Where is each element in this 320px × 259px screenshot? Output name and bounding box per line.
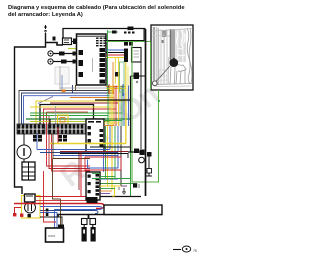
photo interior sketch <box>152 27 192 87</box>
leader line to A circle <box>156 66 170 82</box>
svg-text:Diagrama y esquema de cableado: Diagrama y esquema de cableado (Para ubi… <box>8 5 185 11</box>
red vertical x81 <box>80 152 82 197</box>
connector on top wire <box>128 27 134 31</box>
fork connector <box>88 215 90 220</box>
wire red thin y200 <box>36 200 98 202</box>
connector row <box>17 124 85 134</box>
knot extras <box>112 62 114 94</box>
wire gray stub to row <box>55 106 57 124</box>
wires CDI right stubs <box>104 120 122 122</box>
component box B1 <box>63 38 72 45</box>
key switch assembly <box>22 196 41 219</box>
red vertical through row gap <box>57 127 59 143</box>
svg-text:del arrancador: Leyenda A): del arrancador: Leyenda A) <box>8 12 83 18</box>
wire: left main black loop <box>15 33 46 194</box>
red wires bottom left <box>15 208 22 217</box>
red brown horiz at 151 <box>60 151 128 153</box>
under blob legs <box>170 67 171 84</box>
watermark <box>54 78 165 194</box>
round connector 2 <box>48 59 53 64</box>
top connector bar <box>106 29 144 41</box>
round connector 1 <box>48 51 53 56</box>
solenoid blob in photo <box>169 58 178 68</box>
lower vertical bundle <box>103 126 105 172</box>
horizontal bundle mid-low <box>50 143 126 145</box>
wire darkred y103 <box>50 102 118 104</box>
long black bus bottom <box>58 215 162 218</box>
connector marks small <box>46 209 49 212</box>
ECU pins left column <box>79 50 84 77</box>
ECU pins right column <box>96 38 106 84</box>
svg-text:00000: 00000 <box>48 234 56 238</box>
wire from connector2 <box>53 61 77 63</box>
junction orange on gray wire <box>62 90 66 93</box>
wire: antenna to small box <box>46 43 64 46</box>
pin end wire 1 <box>73 52 76 56</box>
bottom block <box>86 172 100 200</box>
svg-text:75: 75 <box>193 249 197 253</box>
ECU main box <box>77 34 107 85</box>
logo bottom right <box>173 246 197 253</box>
nested loops left: brown <box>19 91 112 125</box>
wire yellow-green short <box>68 48 77 50</box>
ignition coil antenna symbol <box>44 25 47 33</box>
fuse right of ECU <box>131 75 135 77</box>
wire from connector1 <box>53 53 77 55</box>
pin end wire 2 <box>73 60 76 64</box>
gauge circle left <box>17 145 31 159</box>
wire yellow y88 <box>106 88 126 90</box>
minibox yellow above row <box>58 115 69 124</box>
black stub <box>49 119 51 124</box>
green wires at top <box>106 41 151 43</box>
wire gray y88 <box>60 87 118 89</box>
red/blue box loops low center <box>85 157 121 170</box>
small labeled box bottom left <box>46 228 64 242</box>
dark pole <box>170 29 175 62</box>
floor <box>153 84 193 85</box>
black loop <box>40 105 94 125</box>
component small black at 75,39 <box>73 39 77 45</box>
big blue loop <box>24 96 111 150</box>
solenoid area inside green box <box>140 62 142 149</box>
red loops <box>44 109 117 124</box>
wires comp to loops <box>72 85 74 93</box>
green horizontals <box>30 112 122 114</box>
relay next to ECU <box>124 49 128 63</box>
wire green stub over block <box>92 173 100 175</box>
mini comp near ground bottom right of CDI <box>133 183 137 187</box>
wire diagonal blue-gray <box>38 97 53 104</box>
battery box <box>104 205 162 215</box>
nested loops left: dark blue <box>22 93 115 124</box>
vertical bundle ECU to lower <box>107 86 109 127</box>
wires right of bottom block <box>100 176 115 178</box>
wire red y112 <box>47 111 89 113</box>
ECU interior mark <box>92 58 94 72</box>
wire box to pins <box>72 41 77 43</box>
trim grid component <box>22 162 35 180</box>
engine texture right <box>176 29 186 62</box>
wires ECU to relay <box>106 49 124 51</box>
orange horizontal <box>70 98 114 110</box>
black wire y100 to solenoid <box>95 99 131 101</box>
component gray box left <box>55 67 69 84</box>
yellow horizontal 107 <box>30 106 110 108</box>
green legend leader and loop <box>132 42 159 183</box>
CDI center box <box>86 119 104 152</box>
photo box <box>151 25 193 90</box>
wire: top long black to solenoid <box>63 29 146 39</box>
blue wire from row <box>36 134 38 150</box>
small pin clusters below row <box>33 135 67 142</box>
yellow loop <box>36 101 126 144</box>
faint mid details <box>159 70 167 76</box>
comp above relay <box>124 42 128 46</box>
component small sensor at 53,37 <box>53 37 56 41</box>
